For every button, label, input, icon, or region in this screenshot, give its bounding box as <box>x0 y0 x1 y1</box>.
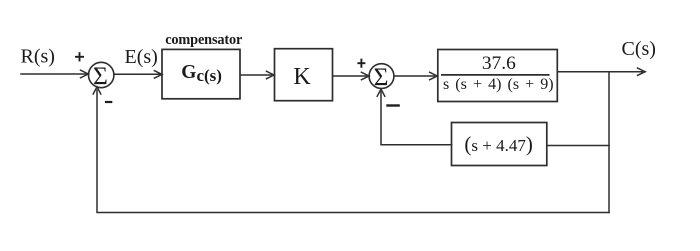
fraction bar <box>441 74 550 76</box>
svg-text:s (s + 4) (s + 9): s (s + 4) (s + 9) <box>443 76 554 93</box>
label plus junction1 <box>75 52 84 61</box>
summing junction 1 <box>89 62 114 87</box>
svg-text:37.6: 37.6 <box>482 53 516 74</box>
wire junction2 to plant <box>395 72 438 79</box>
wire K to junction2 <box>333 72 369 79</box>
label plus junction2 <box>357 59 365 68</box>
svg-text:Σ: Σ <box>374 62 389 91</box>
wire outer feedback bottom and up into junction1 <box>93 87 609 213</box>
svg-text:C(s): C(s) <box>622 38 656 60</box>
wire inner feedback tap <box>547 145 609 147</box>
svg-text:Σ: Σ <box>93 61 108 90</box>
label minus junction2 <box>386 104 400 106</box>
block K <box>275 49 333 101</box>
wire compensator to K <box>241 71 275 78</box>
svg-text:K: K <box>293 64 311 90</box>
svg-text:(s + 4.47): (s + 4.47) <box>464 132 532 156</box>
summing junction 2 <box>369 64 394 89</box>
wire E(s) junction1 to compensator <box>114 71 162 78</box>
block Gc(s) compensator <box>162 49 240 98</box>
label minus junction1 <box>105 101 112 103</box>
block (s+4.47) <box>452 123 547 166</box>
wire inner feedback left and up into junction2 <box>377 89 451 145</box>
svg-text:R(s): R(s) <box>21 45 55 67</box>
wire output to C(s) <box>558 68 646 75</box>
svg-text:Gc(s): Gc(s) <box>181 62 222 85</box>
wire R(s) input <box>21 70 88 78</box>
block plant 37.6 over s(s+4)(s+9) <box>438 50 558 102</box>
wire takeoff vertical <box>608 72 610 213</box>
svg-text:E(s): E(s) <box>125 46 158 68</box>
svg-text:compensator: compensator <box>165 32 243 48</box>
